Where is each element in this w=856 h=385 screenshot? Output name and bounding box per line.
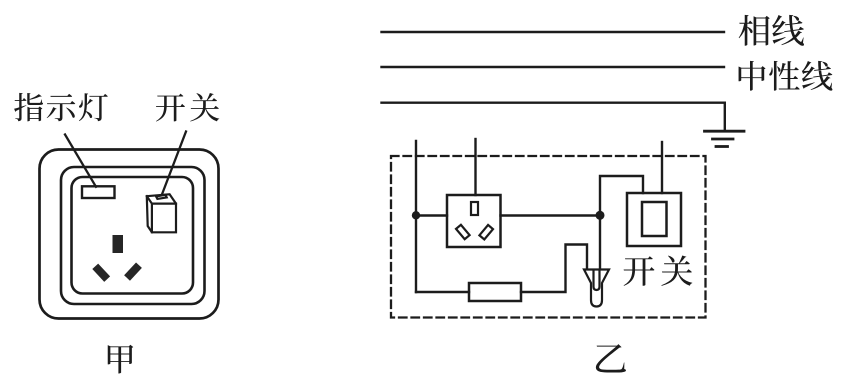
label 开关 (switch) circuit: [624, 255, 693, 285]
wire stub lead socket: [474, 139, 476, 195]
wire neutral line (中性线): [382, 66, 725, 68]
wire bottom left to resistor: [416, 291, 469, 293]
label 中性线 (neutral wire): [739, 61, 833, 91]
wire stub lead switch: [661, 142, 663, 193]
label 指示灯 (indicator lamp): [14, 93, 108, 121]
ground symbol: [705, 131, 745, 146]
label 开关 (switch) panel: [156, 93, 219, 122]
label 甲 (panel A): [108, 345, 133, 374]
node junction dot 2: [596, 211, 605, 220]
wire live line (相线): [382, 31, 725, 33]
panel middle shell: [61, 167, 205, 304]
dashed enclosure box: [391, 156, 706, 318]
panel inner face: [72, 177, 194, 294]
wire socket to node2: [501, 214, 601, 216]
switch S box: [627, 193, 681, 246]
resistor R: [469, 283, 521, 301]
leader line indicator: [65, 135, 96, 187]
socket XS (three-hole outlet symbol): [447, 195, 501, 247]
wire earth line: [382, 103, 725, 131]
indicator lamp window: [82, 186, 115, 198]
wire resistor to lamp (n-shape): [521, 245, 587, 293]
label 乙 (diagram B): [596, 344, 626, 372]
panel outer shell: [40, 150, 219, 319]
rocker switch 3D: [147, 194, 176, 232]
wire stub lead left: [415, 141, 417, 215]
socket hole right (slanted): [124, 262, 142, 280]
wire node2 up to switch: [600, 176, 643, 215]
wire node2 down to lamp: [599, 215, 601, 269]
wire node1 to socket: [416, 214, 447, 216]
neon lamp (indicator bulb): [584, 270, 609, 307]
node junction dot 1: [412, 211, 420, 219]
leader line switch: [162, 132, 186, 195]
socket hole left (slanted): [92, 264, 110, 282]
wire left down: [415, 215, 417, 292]
label 相线 (live wire): [739, 15, 804, 46]
socket hole neutral (vertical slot): [113, 235, 124, 253]
